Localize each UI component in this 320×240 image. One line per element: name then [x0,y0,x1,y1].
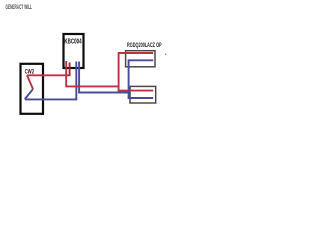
wire red pin1 to riser [66,85,119,87]
wire blue bus TB1 [128,59,153,61]
generator coil box CW2 [21,64,44,114]
svg-text:GENERACT WILL: GENERACT WILL [6,5,33,11]
wire blue CW2 to pin3 [25,98,77,100]
terminal block box TB1 [126,51,155,67]
wire red CW2 to pin2 [27,74,70,76]
coil element CW2 winding blue half [25,89,33,99]
coil element CW2 winding red half [27,75,33,89]
svg-text:RGDQ200LACZ OP: RGDQ200LACZ OP [127,43,162,49]
wire red to TB1 [118,52,153,54]
pin 2 red stub [69,63,71,77]
svg-text:KBC004: KBC004 [64,38,81,45]
terminal block box TB2 [130,86,156,103]
wire blue bus TB2 [128,97,153,99]
pin 3 blue stub [75,62,77,101]
stray dot [165,53,167,55]
wire blue pin4 to riser [78,92,129,94]
wire blue riser [128,60,130,99]
svg-text:CW2: CW2 [25,68,35,75]
pin 4 blue stub [78,62,80,94]
wire red to TB2 [118,90,153,92]
wire red riser [118,52,120,91]
pin 1 red stub [65,61,67,87]
control module box U1 [64,34,84,68]
